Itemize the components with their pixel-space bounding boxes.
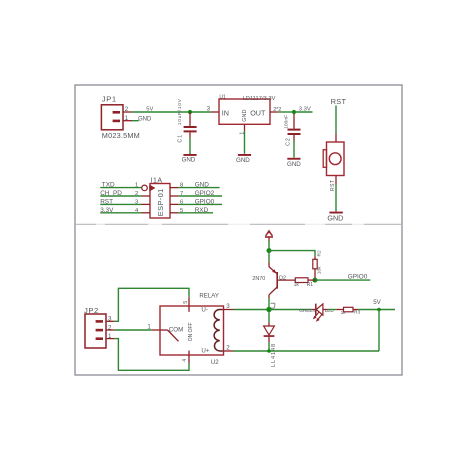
relay pin 3 number bbox=[226, 303, 230, 310]
svg-text:R3: R3 bbox=[354, 310, 360, 316]
svg-text:3: 3 bbox=[135, 199, 138, 205]
svg-text:COM: COM bbox=[169, 326, 183, 333]
ESP pin 3 number bbox=[135, 199, 138, 205]
wire GND net pin8 bbox=[170, 187, 220, 189]
svg-text:RST: RST bbox=[331, 97, 347, 106]
resistor R1 bbox=[295, 278, 315, 283]
svg-text:JP1: JP1 bbox=[102, 94, 117, 103]
label 5V bbox=[146, 106, 153, 112]
value ESP-01 bbox=[156, 188, 165, 216]
relay pin 1 number bbox=[147, 324, 151, 331]
svg-text:U-: U- bbox=[201, 307, 208, 314]
svg-text:GND: GND bbox=[236, 157, 250, 164]
svg-text:GND: GND bbox=[138, 117, 152, 123]
wire C2 to ground bbox=[293, 141, 295, 158]
svg-text:LL4148: LL4148 bbox=[271, 343, 277, 367]
section divider bbox=[75, 223, 402, 226]
svg-text:LED: LED bbox=[325, 308, 335, 313]
junction node base bbox=[313, 278, 318, 283]
svg-text:4: 4 bbox=[182, 359, 188, 362]
clock marker bbox=[150, 185, 155, 191]
svg-text:U+: U+ bbox=[201, 347, 209, 354]
svg-text:M023.5MM: M023.5MM bbox=[102, 131, 140, 140]
JP2 pin 2 number bbox=[108, 324, 112, 331]
wire C1 to ground bbox=[189, 138, 191, 155]
svg-text:2N70: 2N70 bbox=[252, 276, 265, 282]
wire GPIO0 net bbox=[170, 203, 222, 205]
relay pin 2 number bbox=[226, 345, 230, 352]
svg-text:GREEN: GREEN bbox=[299, 308, 316, 313]
svg-text:8: 8 bbox=[180, 183, 183, 189]
label 5V bbox=[373, 299, 381, 306]
wire supply to node bbox=[268, 241, 270, 251]
U1 pin 3 number bbox=[207, 105, 211, 112]
value LD1117/3.3V bbox=[243, 96, 276, 102]
wire R3 to 5V bbox=[358, 309, 395, 311]
wire TXD net bbox=[100, 187, 141, 189]
junction node 3.3V/C2 bbox=[292, 110, 296, 114]
label I1A bbox=[151, 178, 163, 185]
pushbutton S1 RST bbox=[323, 142, 344, 176]
label RXD bbox=[195, 207, 209, 214]
wire JP2 pin2 to relay COM bbox=[106, 329, 160, 331]
voltage regulator U1 bbox=[219, 99, 270, 124]
label GND on JP1 pin1 bbox=[138, 117, 152, 123]
JP1 pin 2 number bbox=[125, 106, 129, 113]
wire switch to ground bbox=[335, 176, 337, 212]
ESP pin 7 number bbox=[180, 191, 183, 197]
svg-text:3: 3 bbox=[207, 105, 211, 112]
label R1 bbox=[307, 282, 314, 288]
label RST bbox=[100, 198, 113, 205]
U1 pin 1 number bbox=[239, 132, 245, 135]
ESP pin 4 number bbox=[135, 208, 139, 214]
label JP2 bbox=[84, 306, 99, 315]
label RELAY bbox=[199, 293, 219, 300]
wire U1 OUT to 3.3V bbox=[270, 111, 294, 113]
svg-text:5V: 5V bbox=[373, 299, 381, 306]
label GND bbox=[195, 182, 210, 189]
wire LED to R3 bbox=[328, 309, 344, 311]
ESP-01 module I1A bbox=[150, 184, 170, 219]
ESP pin 1 number bbox=[135, 183, 138, 189]
svg-text:5V: 5V bbox=[146, 106, 153, 112]
wire 3.3V net bbox=[100, 212, 150, 214]
label RST net bbox=[331, 97, 347, 106]
wire relay coil U- to collector node bbox=[224, 309, 270, 311]
value 1k bbox=[294, 282, 300, 288]
svg-text:GND: GND bbox=[195, 182, 210, 189]
ESP pin 5 number bbox=[180, 208, 183, 214]
wire JP2 pin3 to relay NO bbox=[106, 288, 189, 321]
ESP pin 6 number bbox=[180, 199, 183, 205]
svg-text:GND: GND bbox=[327, 214, 343, 223]
svg-text:C2: C2 bbox=[285, 137, 291, 146]
svg-text:RXD: RXD bbox=[195, 207, 209, 214]
LED green bbox=[313, 304, 328, 322]
svg-text:GND: GND bbox=[242, 110, 248, 122]
label U1 bbox=[219, 94, 226, 100]
label ON OFF rotated bbox=[188, 322, 194, 341]
svg-text:2: 2 bbox=[135, 191, 138, 197]
svg-text:U2: U2 bbox=[211, 359, 219, 366]
label JP1 bbox=[102, 94, 117, 103]
svg-text:3.3V: 3.3V bbox=[299, 107, 311, 113]
svg-text:IN: IN bbox=[222, 109, 229, 118]
svg-text:RST: RST bbox=[100, 198, 113, 205]
svg-text:Q2: Q2 bbox=[279, 276, 286, 282]
label GPIO0 bbox=[348, 274, 368, 281]
wire 3.3V net bbox=[294, 111, 313, 113]
ground under U1 bbox=[236, 154, 251, 164]
svg-text:3.3V: 3.3V bbox=[100, 207, 114, 214]
svg-text:RELAY: RELAY bbox=[199, 293, 219, 300]
label U+ bbox=[201, 347, 209, 354]
wire node to R2 bbox=[269, 251, 315, 260]
label CH_PD bbox=[100, 190, 122, 197]
svg-text:10uF/10V: 10uF/10V bbox=[177, 98, 183, 125]
svg-text:C1: C1 bbox=[178, 134, 184, 143]
junction node collector bbox=[266, 307, 271, 312]
svg-text:1: 1 bbox=[135, 183, 138, 189]
label 3.3V bbox=[100, 207, 114, 214]
inverter bubble pin1 bbox=[142, 185, 148, 191]
svg-text:I1A: I1A bbox=[151, 178, 163, 185]
value M023.5MM bbox=[102, 131, 140, 140]
wire GND stub JP1 pin1 bbox=[123, 120, 139, 122]
junction node 5V corner bbox=[377, 308, 381, 312]
svg-text:1k: 1k bbox=[294, 282, 300, 288]
value 10uF/10V bbox=[177, 98, 183, 125]
value 1k R3 bbox=[341, 310, 347, 316]
svg-text:1k: 1k bbox=[341, 310, 347, 316]
label U2 bbox=[211, 359, 219, 366]
junction node diode/U+ bbox=[267, 349, 271, 353]
wire RST to switch bbox=[335, 106, 337, 143]
label COM bbox=[169, 326, 183, 333]
wire JP2 pin1 to relay NC bbox=[106, 339, 189, 371]
connector JP2 bbox=[85, 314, 106, 348]
capacitor C1 bbox=[184, 112, 197, 138]
label Q2 bbox=[279, 276, 286, 282]
ground under C1 bbox=[182, 154, 197, 164]
relay U2 bbox=[160, 306, 224, 355]
label R2 bbox=[317, 250, 323, 256]
svg-text:GPIO0: GPIO0 bbox=[195, 198, 215, 205]
relay pin 5 number bbox=[183, 301, 189, 304]
JP2 pin 1 number bbox=[108, 333, 112, 340]
svg-text:GPIO2: GPIO2 bbox=[195, 190, 215, 197]
svg-text:100nF: 100nF bbox=[283, 115, 289, 129]
label R3 bbox=[354, 310, 360, 316]
ground under switch bbox=[327, 212, 343, 223]
svg-text:5: 5 bbox=[180, 208, 183, 214]
wire CH_PD net bbox=[100, 195, 150, 197]
supply +3V3 arrow bbox=[265, 231, 273, 241]
wire collector node to LED bbox=[269, 309, 316, 311]
value 2N70 bbox=[252, 276, 265, 282]
connector JP1 bbox=[101, 105, 123, 130]
svg-text:10k: 10k bbox=[317, 266, 323, 274]
value 100nF bbox=[283, 115, 289, 129]
svg-text:7: 7 bbox=[180, 191, 183, 197]
JP2 pin 3 number bbox=[108, 316, 112, 323]
transistor Q2 bbox=[269, 251, 295, 308]
label 3.3V bbox=[299, 107, 311, 113]
svg-text:ON OFF: ON OFF bbox=[188, 322, 194, 341]
capacitor C2 bbox=[288, 114, 301, 141]
JP1 pin 1 number bbox=[125, 115, 129, 122]
ESP pin 2 number bbox=[135, 191, 138, 197]
svg-text:1: 1 bbox=[239, 132, 245, 135]
svg-text:5: 5 bbox=[183, 301, 189, 304]
switch label RST rotated bbox=[330, 180, 336, 192]
svg-text:OUT: OUT bbox=[250, 109, 266, 118]
svg-text:LD1117/3.3V: LD1117/3.3V bbox=[243, 96, 276, 102]
svg-text:GPIO0: GPIO0 bbox=[348, 274, 368, 281]
svg-text:CH_PD: CH_PD bbox=[100, 190, 122, 197]
label TXD bbox=[102, 182, 115, 189]
resistor R3 bbox=[344, 307, 359, 312]
svg-text:R2: R2 bbox=[317, 250, 323, 256]
wire RXD net bbox=[170, 212, 213, 214]
ESP pin 8 number bbox=[180, 183, 183, 189]
wire GPIO2 net bbox=[170, 195, 222, 197]
label C2 bbox=[285, 137, 291, 146]
svg-text:JP2: JP2 bbox=[84, 306, 99, 315]
label U- bbox=[201, 307, 208, 314]
label GPIO0 bbox=[195, 198, 215, 205]
svg-text:R1: R1 bbox=[307, 282, 314, 288]
svg-text:1: 1 bbox=[147, 324, 151, 331]
svg-text:6: 6 bbox=[180, 199, 183, 205]
value GREEN bbox=[299, 308, 316, 313]
wire 5V net bbox=[123, 111, 219, 113]
diode LL4148 bbox=[264, 312, 275, 351]
wire 5V down to U+ row bbox=[378, 310, 380, 352]
svg-text:U1: U1 bbox=[219, 94, 226, 100]
wire relay coil U+ to 5V bbox=[224, 350, 380, 352]
label C1 bbox=[178, 134, 184, 143]
wire RST net bbox=[100, 203, 150, 205]
U1 pin 2 label 2*2 bbox=[273, 107, 281, 113]
label GPIO2 bbox=[195, 190, 215, 197]
frame border bbox=[75, 85, 402, 375]
value LL4148 bbox=[271, 343, 277, 367]
junction node supply bbox=[267, 248, 272, 253]
junction node 5V/C1 bbox=[188, 110, 192, 114]
ground under C2 bbox=[287, 158, 301, 168]
net mark near collector node bbox=[271, 303, 275, 308]
svg-text:ESP-01: ESP-01 bbox=[156, 188, 165, 216]
svg-text:TXD: TXD bbox=[102, 182, 115, 189]
U1 GND pin wire bbox=[244, 124, 246, 154]
svg-text:GND: GND bbox=[287, 161, 301, 168]
svg-text:GND: GND bbox=[182, 157, 196, 164]
value 10k bbox=[317, 266, 323, 274]
relay pin 4 number bbox=[182, 359, 188, 362]
resistor R2 bbox=[313, 259, 317, 278]
wire GPIO0 net lower bbox=[315, 279, 370, 281]
label LED bbox=[325, 308, 335, 313]
